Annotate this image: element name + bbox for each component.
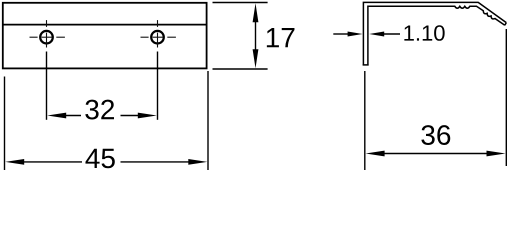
centerline hole H1 — [30, 20, 65, 47]
dimension 17 line — [255, 20, 257, 51]
profile tip end cap — [505, 23, 507, 26]
extension line left (dim 36) — [364, 71, 366, 170]
left view plate outline — [3, 3, 207, 69]
dimension 32 line right segment — [121, 115, 141, 117]
extension line left (dim 45) — [4, 77, 6, 171]
dimension 36 line — [382, 153, 489, 155]
dimension 1.10 right arrowhead — [369, 32, 384, 37]
dimension 32 left arrowhead — [47, 113, 66, 119]
dimension text 1.10 — [404, 25, 444, 41]
plate fold edge line — [2, 24, 207, 26]
dimension 17 top arrowhead — [253, 3, 259, 22]
dimension text 45 — [85, 149, 114, 169]
dimension 17 bottom arrowhead — [253, 49, 259, 68]
dimension text 36 — [421, 125, 450, 145]
profile bottom end cap — [363, 64, 369, 66]
extension line right (dim 45) — [207, 71, 209, 170]
extension line hole H1 (dim 32) — [46, 52, 48, 120]
centerline hole H2 — [141, 20, 176, 47]
dimension text 17 — [267, 28, 295, 47]
profile outer contour (right view) — [363, 2, 506, 65]
extension line right (dim 36) — [505, 29, 507, 166]
dimension 1.10 left arrow leader — [333, 33, 349, 35]
dimension 36 left arrowhead — [366, 151, 385, 157]
dimension 36 right arrowhead — [487, 151, 506, 157]
hole H1 — [40, 31, 53, 44]
dimension 45 left arrowhead — [5, 159, 24, 165]
dimension 45 line left segment — [21, 161, 82, 163]
dimension 1.10 right arrow leader — [383, 33, 400, 35]
extension line hole H2 (dim 32) — [157, 52, 159, 120]
dimension 32 line left segment — [64, 115, 81, 117]
dimension 45 right arrowhead — [188, 159, 207, 165]
dimension 32 right arrowhead — [138, 113, 157, 119]
extension line bottom (dim 17) — [213, 68, 268, 70]
profile inner contour with serrations — [368, 6, 505, 65]
dimension text 32 — [85, 100, 114, 120]
dimension 45 line right segment — [121, 161, 191, 163]
dimension 1.10 left arrowhead — [348, 32, 363, 37]
hole H2 — [151, 31, 164, 44]
extension line top (dim 17) — [213, 2, 268, 4]
